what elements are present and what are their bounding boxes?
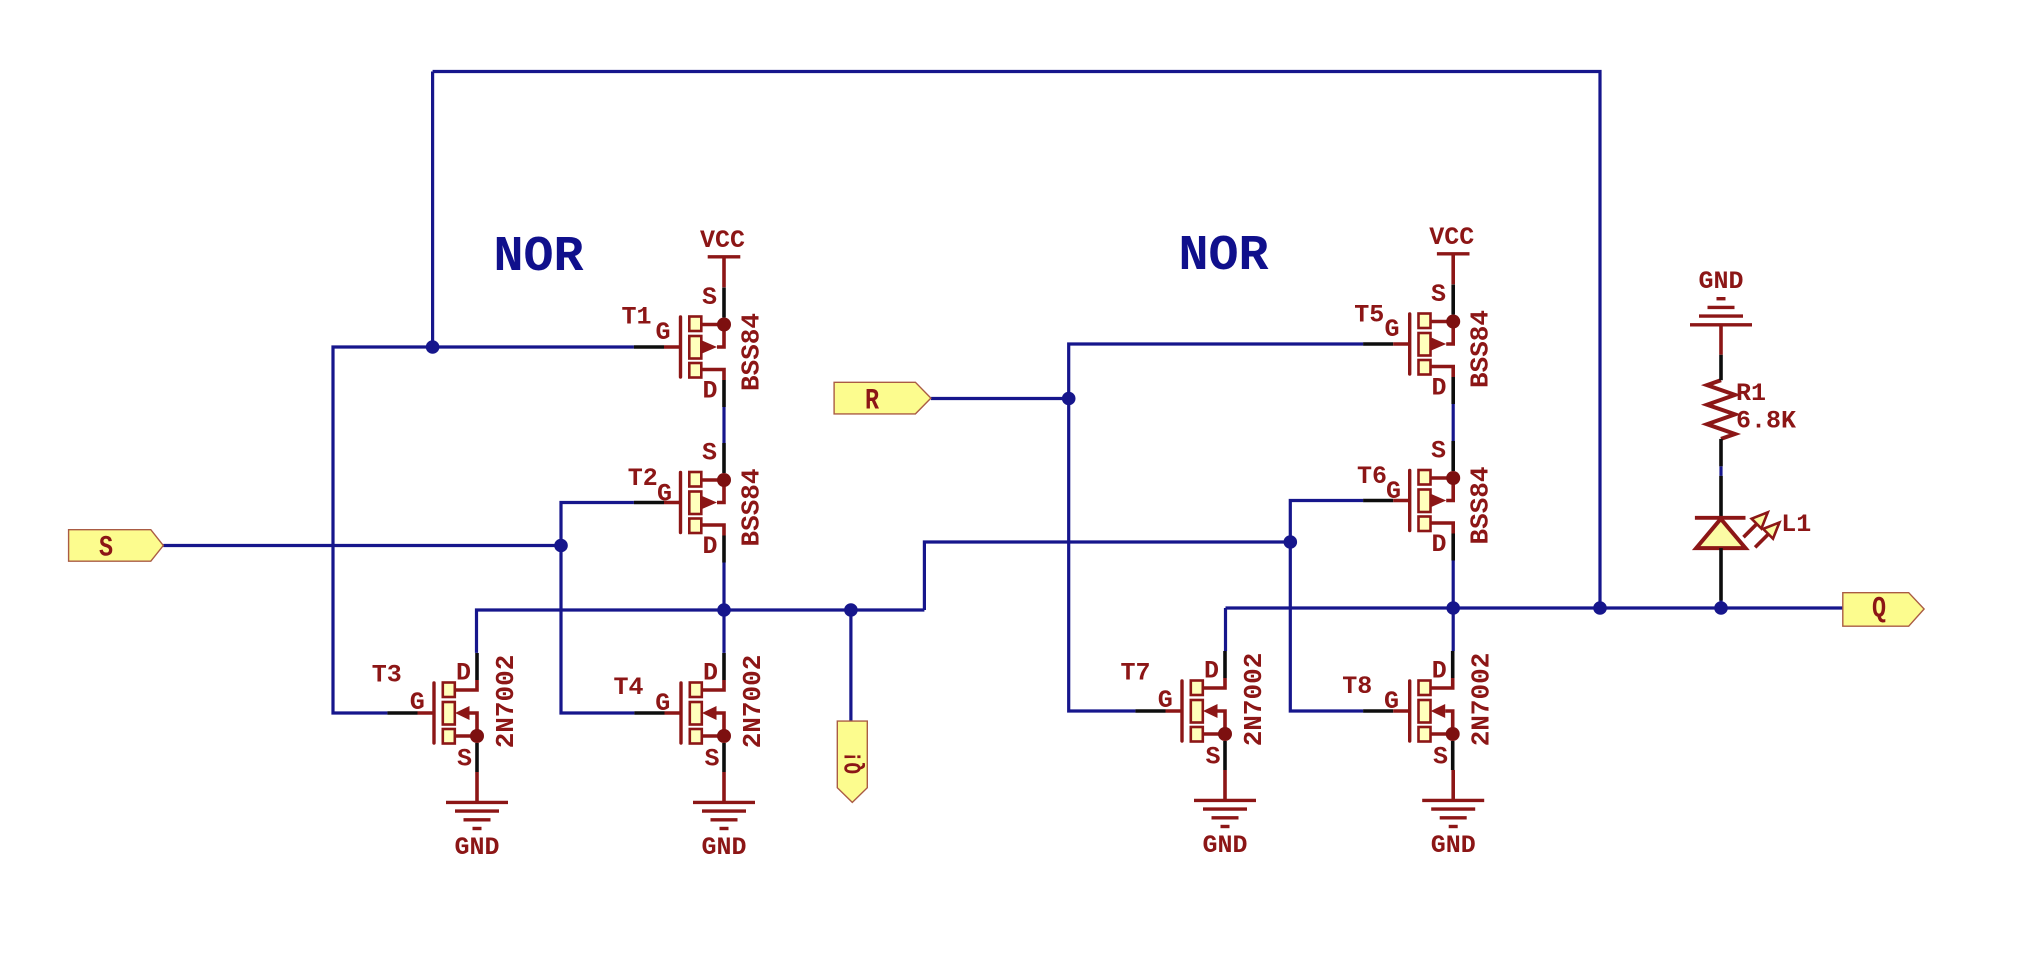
- svg-text:S: S: [1431, 437, 1446, 466]
- wire net Q output row: [1226, 606, 1843, 609]
- wire net !Q output row: [477, 610, 925, 653]
- svg-text:NOR: NOR: [1178, 228, 1268, 285]
- transistor T4 (2N7002 N-MOSFET): [614, 653, 768, 774]
- svg-text:S: S: [99, 532, 113, 565]
- svg-text:D: D: [1432, 374, 1447, 403]
- svg-text:GND: GND: [1698, 267, 1743, 296]
- transistor T8 (2N7002 N-MOSFET): [1342, 651, 1496, 772]
- transistor T3 (2N7002 N-MOSFET): [372, 653, 521, 774]
- svg-text:S: S: [457, 745, 472, 774]
- junction net Q at T1 gate: [426, 340, 440, 354]
- power symbol GND (inverted): [1690, 267, 1752, 355]
- wire net N$1 T1.D-T2.S: [722, 407, 725, 443]
- wire net !Q T4 drain: [722, 610, 725, 653]
- junction net R: [1062, 392, 1076, 406]
- power symbol GND: [693, 772, 755, 862]
- power symbol GND: [1194, 770, 1256, 860]
- svg-text:6.8K: 6.8K: [1736, 407, 1796, 436]
- wire net Q LED stub: [1719, 601, 1722, 609]
- wire net N$3 R1-LED: [1719, 466, 1722, 476]
- svg-text:S: S: [705, 745, 720, 774]
- svg-text:T7: T7: [1121, 658, 1151, 687]
- svg-text:G: G: [410, 688, 425, 717]
- junction net Q at T6/T8 drains: [1446, 601, 1460, 615]
- wire net S to T4 gate: [561, 546, 634, 714]
- power symbol GND: [446, 772, 508, 862]
- wire net Q to T3 gate: [333, 347, 433, 713]
- svg-text:GND: GND: [701, 833, 746, 862]
- svg-text:2N7002: 2N7002: [738, 655, 768, 749]
- wire net Q left vertical: [431, 72, 434, 348]
- wire net Q to T1 gate: [433, 345, 634, 348]
- svg-text:GND: GND: [454, 833, 499, 862]
- svg-text:G: G: [1385, 315, 1400, 344]
- wire net !Q to flag: [849, 610, 852, 721]
- svg-text:GND: GND: [1431, 831, 1476, 860]
- svg-text:S: S: [1431, 280, 1446, 309]
- svg-text:D: D: [703, 377, 718, 406]
- svg-text:S: S: [702, 283, 717, 312]
- svg-text:G: G: [656, 318, 671, 347]
- LED L1: [1695, 476, 1811, 601]
- svg-text:VCC: VCC: [1429, 223, 1474, 252]
- svg-text:T1: T1: [622, 303, 652, 332]
- transistor T6 (BSS84 P-MOSFET): [1357, 437, 1496, 561]
- wire net Q T6 drain: [1452, 561, 1455, 609]
- svg-text:D: D: [456, 659, 471, 688]
- power symbol GND: [1422, 770, 1484, 860]
- svg-text:BSS84: BSS84: [1466, 310, 1496, 388]
- wire net R to T7 gate: [1069, 399, 1136, 712]
- svg-text:G: G: [1158, 686, 1173, 715]
- transistor T2 (BSS84 P-MOSFET): [628, 439, 767, 563]
- wire net S from flag: [163, 544, 561, 547]
- svg-text:2N7002: 2N7002: [1239, 653, 1269, 747]
- input flag R: [834, 382, 931, 418]
- svg-text:Q: Q: [1872, 593, 1886, 626]
- svg-text:T4: T4: [614, 673, 644, 702]
- junction net S: [554, 539, 568, 553]
- svg-text:G: G: [655, 689, 670, 718]
- transistor T5 (BSS84 P-MOSFET): [1354, 280, 1495, 404]
- wire net !Q feedback to NOR2: [924, 542, 1290, 610]
- junction net !Q at flag: [844, 603, 858, 617]
- svg-text:T8: T8: [1342, 672, 1372, 701]
- svg-text:GND: GND: [1202, 831, 1247, 860]
- svg-text:L1: L1: [1781, 510, 1811, 539]
- junction net !Q NOR2 input: [1284, 535, 1298, 549]
- wire net Q top feedback: [433, 72, 1600, 609]
- svg-text:T3: T3: [372, 661, 402, 690]
- wire net !Q to T8 gate: [1290, 542, 1363, 711]
- svg-text:D: D: [1432, 657, 1447, 686]
- junction net !Q at T2/T4 drains: [717, 603, 731, 617]
- wire net R to T5 gate: [1069, 344, 1363, 399]
- svg-text:R1: R1: [1736, 379, 1766, 408]
- wire net !Q T2 drain: [722, 563, 725, 611]
- svg-text:T5: T5: [1354, 301, 1384, 330]
- svg-text:T6: T6: [1357, 462, 1387, 491]
- output flag Q: [1843, 593, 1924, 627]
- svg-text:S: S: [702, 439, 717, 468]
- wire net R from flag: [931, 397, 1069, 400]
- wire net S to T2 gate: [561, 503, 634, 546]
- svg-text:D: D: [703, 532, 718, 561]
- svg-text:NOR: NOR: [493, 229, 583, 286]
- svg-text:G: G: [1384, 687, 1399, 716]
- svg-text:2N7002: 2N7002: [1467, 653, 1497, 747]
- svg-text:G: G: [657, 479, 672, 508]
- svg-text:D: D: [1204, 657, 1219, 686]
- svg-text:T2: T2: [628, 464, 658, 493]
- svg-text:Q!: Q!: [841, 751, 869, 774]
- wire net !Q to T6 gate: [1290, 501, 1363, 543]
- svg-text:D: D: [1432, 530, 1447, 559]
- output flag !Q: [837, 721, 868, 802]
- junction net Q at LED: [1714, 601, 1728, 615]
- resistor R1 6.8K: [1707, 355, 1796, 467]
- power symbol VCC: [700, 226, 745, 287]
- junction net Q output row x1600: [1593, 601, 1607, 615]
- svg-text:R: R: [865, 385, 880, 418]
- transistor T1 (BSS84 P-MOSFET): [622, 283, 767, 407]
- wire net N$2 T5.D-T6.S: [1452, 404, 1455, 441]
- power symbol VCC: [1429, 223, 1474, 284]
- svg-text:BSS84: BSS84: [1466, 466, 1496, 544]
- svg-text:2N7002: 2N7002: [491, 655, 521, 749]
- wire net Q T8 drain: [1452, 608, 1455, 651]
- svg-text:BSS84: BSS84: [737, 313, 767, 391]
- svg-text:BSS84: BSS84: [737, 468, 767, 546]
- svg-text:S: S: [1206, 743, 1221, 772]
- wire net Q T7 drain: [1224, 608, 1227, 651]
- svg-text:D: D: [703, 659, 718, 688]
- svg-text:VCC: VCC: [700, 226, 745, 255]
- svg-text:G: G: [1386, 477, 1401, 506]
- svg-text:S: S: [1433, 743, 1448, 772]
- input flag S: [69, 530, 164, 566]
- transistor T7 (2N7002 N-MOSFET): [1121, 651, 1269, 772]
